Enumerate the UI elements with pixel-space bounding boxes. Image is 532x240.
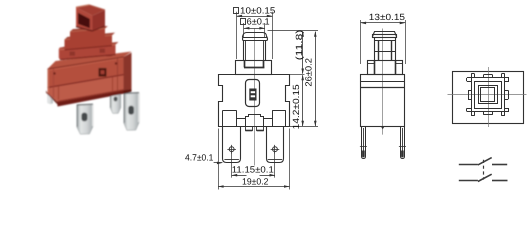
svg-text:19±0.2: 19±0.2 [242,176,269,186]
svg-text:10±0.15: 10±0.15 [240,6,275,16]
svg-text:4.7±0.1: 4.7±0.1 [185,153,213,163]
svg-text:26±0.2: 26±0.2 [304,58,314,87]
svg-text:6±0.1: 6±0.1 [247,16,270,26]
svg-text:14.2±0.15: 14.2±0.15 [291,84,301,129]
svg-text:11.15±0.1: 11.15±0.1 [232,165,274,175]
svg-text:13±0.15: 13±0.15 [369,12,405,22]
svg-text:(11.8): (11.8) [294,30,304,61]
